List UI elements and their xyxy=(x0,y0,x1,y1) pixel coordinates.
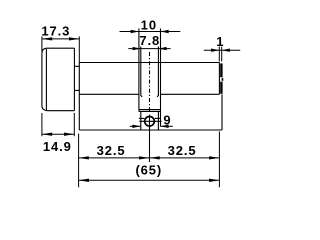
dimension 1 (right chamfer) xyxy=(204,47,240,62)
barrel bottom left segment xyxy=(79,93,139,95)
barrel right face xyxy=(218,63,220,95)
svg-text:9: 9 xyxy=(163,112,170,127)
svg-text:17.3: 17.3 xyxy=(41,24,70,39)
cam bottom line 1 xyxy=(139,109,161,111)
neck bottom xyxy=(74,89,79,91)
svg-text:(65): (65) xyxy=(135,163,162,178)
cam tail outer right edge xyxy=(160,111,162,126)
dimension 10 xyxy=(120,30,181,33)
dimension 32.5 left xyxy=(79,134,150,188)
cam tail left edge xyxy=(140,111,142,129)
cam bottom line 2 xyxy=(139,110,161,112)
dimension 32.5 right xyxy=(149,132,219,188)
dimension (65) overall xyxy=(79,179,220,182)
svg-text:14.9: 14.9 xyxy=(43,139,72,154)
foot ledge left xyxy=(139,117,144,119)
right end chamfer ring (dark band) xyxy=(220,63,223,93)
knob front outer edge with rounded corners xyxy=(42,48,48,110)
cam inner left xyxy=(141,47,142,97)
barrel top xyxy=(79,62,219,64)
foot ledge right xyxy=(155,117,161,119)
body front face xyxy=(78,63,80,131)
knob top edge xyxy=(47,47,75,49)
svg-text:1: 1 xyxy=(216,34,223,49)
neck top xyxy=(74,65,79,67)
svg-text:7.8: 7.8 xyxy=(139,33,160,48)
center line lower xyxy=(149,131,151,162)
knob bottom edge xyxy=(47,110,74,112)
crosshair vertical xyxy=(149,115,151,131)
dimension 17.3 xyxy=(42,36,79,62)
dimension 9 (cam width at foot) xyxy=(130,125,173,128)
svg-text:32.5: 32.5 xyxy=(97,143,126,158)
barrel bottom right segment xyxy=(161,93,220,95)
foot bottom xyxy=(79,129,222,131)
foot right face xyxy=(221,94,223,130)
svg-text:32.5: 32.5 xyxy=(168,143,197,158)
dimension 7.8 xyxy=(128,47,170,50)
center line upper xyxy=(149,52,151,113)
cam outer left xyxy=(138,29,140,112)
knob back face xyxy=(73,48,75,110)
cam tail right edge xyxy=(157,111,159,129)
cam inner right xyxy=(157,47,158,97)
screw hole circle xyxy=(145,117,155,127)
dimension 14.9 xyxy=(42,113,74,136)
cam outer right xyxy=(160,29,162,112)
crosshair horizontal / leader to 9 xyxy=(139,120,161,122)
knob front face line xyxy=(45,49,47,111)
svg-text:10: 10 xyxy=(141,18,157,33)
